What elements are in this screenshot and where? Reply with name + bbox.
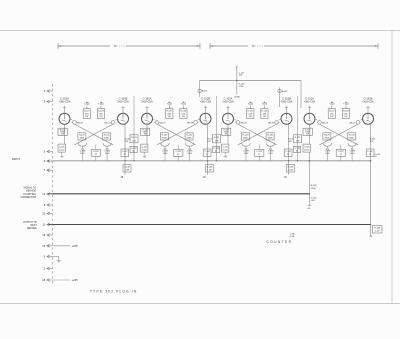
svg-text:R-128: R-128: [181, 110, 187, 112]
svg-text:DEKADE: DEKADE: [27, 227, 37, 230]
svg-text:½6U-C5A: ½6U-C5A: [281, 100, 293, 104]
svg-text:330K: 330K: [79, 138, 84, 140]
svg-text:C-126: C-126: [222, 146, 228, 148]
svg-text:+225: +225: [329, 104, 335, 106]
svg-text:R-128: R-128: [343, 110, 349, 112]
svg-text:2x150: 2x150: [59, 150, 65, 152]
svg-text:1.4M: 1.4M: [288, 170, 293, 172]
svg-text:+105: +105: [72, 244, 79, 248]
svg-text:R-148: R-148: [207, 167, 213, 169]
svg-text:C-126: C-126: [304, 146, 310, 148]
svg-text:1W: 1W: [85, 116, 88, 118]
svg-text:1W: 1W: [263, 116, 266, 118]
svg-text:R-131: R-131: [214, 137, 220, 139]
svg-text:C-147: C-147: [286, 151, 292, 153]
svg-text:+225: +225: [167, 104, 173, 106]
svg-text:½6U-C5A: ½6U-C5A: [200, 100, 212, 104]
svg-text:+105: +105: [262, 104, 268, 106]
svg-text:1.4M: 1.4M: [125, 170, 130, 172]
svg-text:R-127: R-127: [248, 110, 254, 112]
svg-text:R-130: R-130: [104, 135, 111, 137]
svg-text:R-127: R-127: [329, 110, 335, 112]
svg-text:COUNTER: COUNTER: [266, 240, 292, 244]
svg-text:C-132: C-132: [93, 151, 99, 153]
svg-text:1.4M: 1.4M: [207, 170, 212, 172]
svg-text:R-129: R-129: [243, 135, 250, 137]
svg-text:+105: +105: [181, 104, 187, 106]
svg-text:330K: 330K: [349, 138, 354, 140]
svg-text:R-128: R-128: [262, 110, 268, 112]
svg-text:CONNECTOR: CONNECTOR: [21, 196, 37, 199]
svg-text:½6U-C5A: ½6U-C5A: [304, 100, 316, 104]
svg-text:100K: 100K: [311, 188, 316, 190]
svg-text:R-130: R-130: [267, 135, 274, 137]
svg-text:+105: +105: [98, 104, 104, 106]
svg-text:1W: 1W: [225, 133, 228, 135]
svg-text:+225: +225: [72, 278, 79, 282]
svg-text:NE-23: NE-23: [187, 122, 194, 124]
svg-text:R-130: R-130: [349, 135, 356, 137]
svg-text:B-105: B-105: [282, 91, 288, 93]
svg-text:½6U-C5A: ½6U-C5A: [59, 100, 71, 104]
svg-text:1W: 1W: [182, 116, 185, 118]
svg-text:C-126: C-126: [141, 146, 147, 148]
svg-text:R-129: R-129: [162, 135, 169, 137]
svg-text:NE-23: NE-23: [350, 122, 357, 124]
svg-text:330K: 330K: [187, 138, 192, 140]
svg-text:270K: 270K: [239, 86, 244, 88]
svg-text:NE-23: NE-23: [241, 122, 248, 124]
svg-text:330K: 330K: [324, 138, 329, 140]
svg-text:R-169: R-169: [375, 228, 381, 230]
svg-text:C-126: C-126: [59, 146, 65, 148]
svg-text:R-127: R-127: [84, 110, 90, 112]
svg-text:-45 AV: -45 AV: [234, 95, 241, 98]
svg-text:C-132: C-132: [257, 151, 263, 153]
svg-text:C-147: C-147: [122, 151, 128, 153]
svg-text:2x150: 2x150: [141, 150, 147, 152]
svg-text:NE-23: NE-23: [268, 122, 275, 124]
svg-text:330K: 330K: [243, 138, 248, 140]
svg-text:1W: 1W: [306, 133, 309, 135]
svg-text:C-147: C-147: [205, 151, 211, 153]
svg-text:330K: 330K: [104, 138, 109, 140]
svg-text:R-128: R-128: [98, 110, 104, 112]
svg-text:2x150: 2x150: [222, 150, 228, 152]
svg-text:1W: 1W: [168, 116, 171, 118]
svg-text:1.4M: 1.4M: [375, 231, 380, 233]
svg-text:½6U-C5A: ½6U-C5A: [222, 100, 234, 104]
svg-text:R-127: R-127: [167, 110, 173, 112]
svg-text:TYPE 362 PLUG-IN: TYPE 362 PLUG-IN: [90, 290, 138, 294]
svg-text:C-132: C-132: [176, 151, 182, 153]
svg-text:½6U-C5A: ½6U-C5A: [117, 100, 129, 104]
svg-text:+105: +105: [343, 104, 349, 106]
svg-text:2x150: 2x150: [304, 150, 310, 152]
svg-text:1W: 1W: [99, 116, 102, 118]
svg-text:R-131: R-131: [295, 137, 301, 139]
svg-text:NE-23: NE-23: [322, 122, 329, 124]
svg-text:R-148: R-148: [124, 167, 130, 169]
svg-text:½6U-C5A: ½6U-C5A: [362, 100, 374, 104]
svg-text:7¼: 7¼: [252, 44, 257, 48]
svg-text:R-148: R-148: [288, 167, 294, 169]
svg-text:1W: 1W: [144, 133, 147, 135]
svg-text:1W: 1W: [249, 116, 252, 118]
svg-text:NE-23: NE-23: [77, 122, 84, 124]
svg-text:R-131: R-131: [131, 137, 137, 139]
svg-text:C-147: C-147: [368, 151, 374, 153]
svg-text:NE-23: NE-23: [160, 122, 167, 124]
svg-text:330K: 330K: [268, 138, 273, 140]
svg-text:+225: +225: [248, 104, 254, 106]
svg-text:7¼: 7¼: [114, 44, 119, 48]
svg-text:½6U-C5A: ½6U-C5A: [141, 100, 153, 104]
svg-text:A-105: A-105: [202, 90, 208, 93]
svg-text:R-129: R-129: [324, 135, 331, 137]
svg-text:NE-23: NE-23: [105, 122, 112, 124]
svg-text:1W: 1W: [61, 133, 64, 135]
svg-text:+225: +225: [84, 104, 90, 106]
svg-text:R-129: R-129: [79, 135, 86, 137]
svg-text:R-130: R-130: [186, 135, 193, 137]
svg-text:C-132: C-132: [338, 151, 344, 153]
svg-text:330K: 330K: [162, 138, 167, 140]
svg-text:1W: 1W: [344, 116, 347, 118]
svg-text:P-5B: P-5B: [290, 236, 295, 238]
svg-text:1W: 1W: [330, 116, 333, 118]
svg-text:INPUT: INPUT: [12, 157, 20, 161]
